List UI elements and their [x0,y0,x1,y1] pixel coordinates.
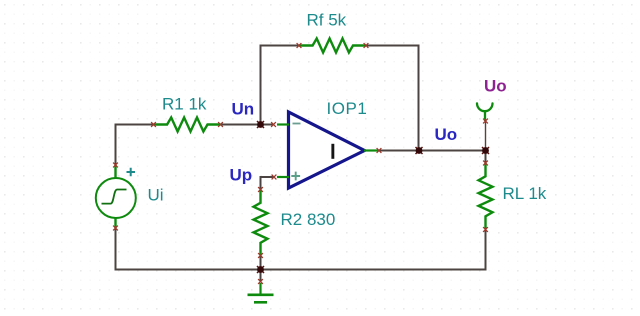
wire from left branch to R1 left pin [116,124,155,126]
junction node Uo [482,147,489,154]
wire voltage probe pin down to output node [485,121,487,150]
pin mark Rf right [364,43,369,48]
op-amp U1 triangle body [289,112,365,188]
svg-text:R1 1k: R1 1k [162,95,207,114]
svg-text:Ui: Ui [148,186,164,205]
wire node Up horizontal to op-amp non-inverting pin [261,176,275,178]
op-amp ideal gain bar glyph [331,144,334,159]
pin mark R1 right [218,122,223,127]
wire RL bottom pin to bottom rail [485,230,487,271]
ground lower bar [254,301,267,304]
voltage probe Uo cup symbol [477,103,493,111]
resistor R1 [154,118,221,132]
op-amp output lead [364,149,379,151]
pin mark RL bottom [483,227,488,232]
junction ground rail [257,266,264,273]
junction node Un [257,121,264,128]
pin mark op-amp output [377,148,382,153]
wire node Up vertical to R2 top pin [260,176,262,190]
pin mark ground [258,279,263,284]
op-amp inverting input lead [277,123,289,125]
voltage source Ui polarity plus sign [127,168,136,177]
pin mark R2 top [258,187,263,192]
svg-text:Uo: Uo [435,125,458,144]
wire feedback right vertical down to output node [418,45,420,151]
wire op-amp output to node Uo and RL [378,150,486,152]
wire output node up to RL top pin region [485,151,487,164]
svg-text:RL 1k: RL 1k [503,184,547,203]
junction feedback-output [416,147,423,154]
svg-text:Un: Un [232,100,255,119]
pin mark op-amp inverting input [271,122,276,127]
voltage source Ui circle [96,178,136,218]
wire R2 bottom pin to bottom rail [260,256,262,271]
wire left vertical lower segment from source Ui bottom pin to bottom rail [115,228,117,271]
ground lead [259,283,261,294]
voltage source Ui bottom lead [114,218,116,229]
pin mark Rf left [297,43,302,48]
voltage source Ui top lead [114,165,116,179]
svg-text:Up: Up [230,166,253,185]
op-amp non-inverting input lead [277,176,289,178]
ground upper bar [248,293,274,296]
resistor R2 [254,190,268,256]
pin mark voltage probe [483,119,488,124]
pin mark op-amp non-inverting input [272,175,277,180]
wire bottom ground rail [115,269,487,271]
svg-text:R2 830: R2 830 [281,210,336,229]
svg-text:Uo: Uo [484,77,507,96]
wire bottom rail junction to ground pin [260,270,262,282]
svg-text:IOP1: IOP1 [327,99,368,118]
svg-text:Rf 5k: Rf 5k [307,11,347,30]
wire from R1 right pin through node Un to op-amp inverting pin [221,124,275,126]
pin mark source Ui bottom [113,226,118,231]
wire feedback top horizontal from Rf right pin [366,45,420,47]
voltage probe Uo stem [484,112,486,121]
wire feedback top horizontal to Rf left pin [260,45,300,47]
pin mark R1 left [151,122,156,127]
op-amp minus sign [293,123,301,125]
op-amp plus sign [291,172,300,181]
pin mark source Ui top [113,163,118,168]
resistor RL [479,163,493,229]
wire feedback left vertical from node Un up [260,45,262,125]
voltage source Ui waveform glyph [102,190,127,204]
pin mark RL top [483,161,488,166]
pin mark R2 bottom [258,253,263,258]
wire left vertical upper segment to source Ui top pin [115,124,117,166]
resistor Rf [299,39,366,53]
